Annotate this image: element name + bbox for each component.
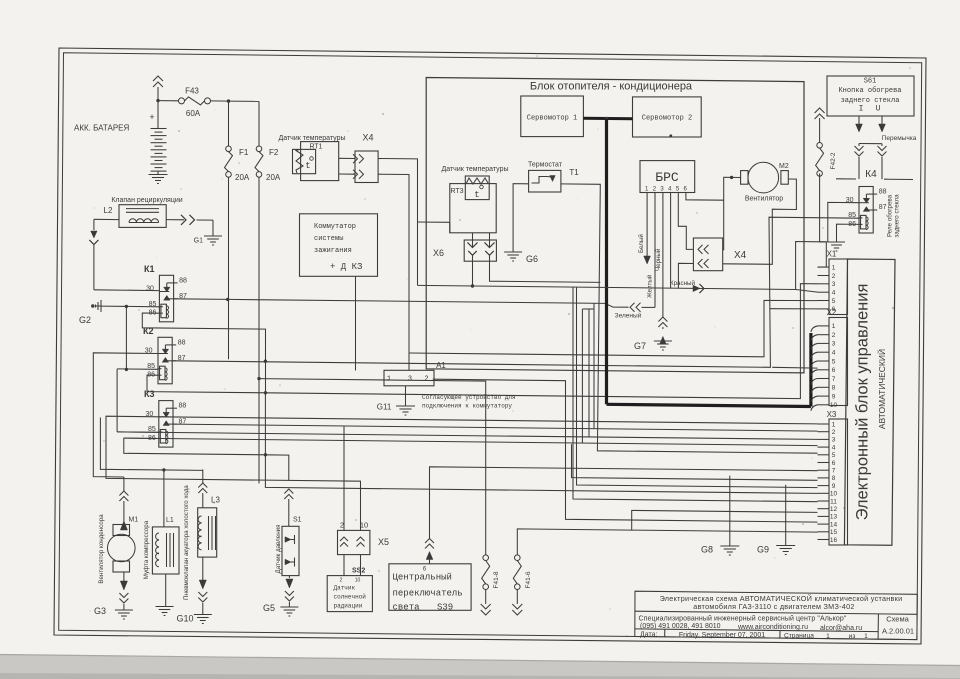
svg-text:1: 1 — [832, 421, 836, 428]
svg-text:G10: G10 — [176, 614, 193, 624]
thick link between servomotors — [583, 117, 632, 121]
svg-text:Блок отопителя - кондиционера: Блок отопителя - кондиционера — [530, 81, 693, 93]
svg-text:БРС: БРС — [655, 170, 679, 185]
wire tap L4 riser — [581, 309, 583, 443]
svg-text:www.airconditioning.ru: www.airconditioning.ru — [737, 624, 808, 631]
svg-text:13: 13 — [830, 514, 838, 521]
svg-text:Сервомотор 1: Сервомотор 1 — [527, 115, 577, 123]
svg-text:G11: G11 — [377, 403, 392, 412]
BRS block — [640, 161, 695, 193]
electronic control unit box — [844, 259, 895, 545]
svg-text:Белый: Белый — [638, 234, 645, 253]
ground G11 — [396, 405, 415, 407]
wire F41-6 feed from X3 pin12 line — [517, 510, 817, 555]
svg-text:9: 9 — [832, 393, 836, 400]
svg-text:X3: X3 — [827, 410, 837, 419]
fuse F41-6 — [515, 555, 521, 561]
svg-text:Датчик давления: Датчик давления — [275, 525, 282, 574]
ground G2 (chassis) — [96, 305, 102, 307]
ignition commutator box — [300, 214, 378, 276]
svg-text:F43: F43 — [185, 87, 199, 96]
node on K2-87 line — [264, 360, 267, 363]
svg-text:Х4: Х4 — [362, 133, 373, 143]
svg-text:Перемычка: Перемычка — [882, 135, 917, 142]
wire red spur to X1 pin4 — [796, 290, 818, 293]
svg-text:4: 4 — [832, 444, 836, 451]
svg-text:Согласующее устройство для: Согласующее устройство для — [422, 394, 516, 401]
svg-text:Вентилятор конденсора: Вентилятор конденсора — [98, 514, 105, 584]
wire F41-8 feed from F2 node — [259, 379, 486, 555]
svg-text:Коммутатор: Коммутатор — [314, 223, 356, 231]
fuse F41-8 — [483, 555, 489, 561]
rear window heater button S61 box — [827, 76, 914, 116]
svg-text:Термостат: Термостат — [528, 162, 563, 169]
solar sensor SS2 box — [327, 576, 372, 612]
ground G7 — [658, 317, 667, 322]
wire red long run — [418, 285, 796, 289]
svg-text:1: 1 — [826, 633, 830, 640]
wire X6 left pin down to red run — [472, 255, 474, 286]
wire L3 branch down — [202, 469, 204, 483]
fuse F1 — [228, 101, 230, 146]
svg-text:1: 1 — [832, 323, 836, 330]
wire G2 bus down to K2-85 — [125, 306, 127, 369]
wire BRS pin1 (white) — [646, 193, 648, 257]
wires X5 to SS2 — [343, 555, 345, 576]
svg-text:X1: X1 — [827, 250, 837, 259]
title block schema column divider — [877, 614, 879, 639]
svg-text:2: 2 — [832, 429, 836, 436]
svg-text:9: 9 — [832, 483, 836, 490]
svg-text:(095) 491 0028, 491 8010: (095) 491 0028, 491 8010 — [640, 623, 721, 630]
svg-text:Электронный блок управления: Электронный блок управления — [854, 284, 872, 521]
svg-text:6: 6 — [832, 367, 836, 374]
relay K3 — [159, 401, 173, 448]
svg-text:Красный: Красный — [670, 280, 695, 287]
svg-text:подключения к коммутатору: подключения к коммутатору — [422, 403, 512, 410]
wire K1-86 loop to 86-net — [142, 313, 265, 393]
svg-text:10: 10 — [360, 521, 368, 530]
svg-text:S39: S39 — [437, 603, 453, 613]
svg-text:2: 2 — [832, 273, 836, 280]
wire commutator to A1 — [355, 276, 357, 370]
ground under K4 — [828, 241, 845, 243]
svg-text:А1: А1 — [436, 361, 446, 370]
ground G6 — [504, 251, 522, 253]
page border inner frame — [59, 53, 922, 640]
svg-text:3: 3 — [408, 376, 412, 384]
wire T1 right down through relay lines to X3 pin5 — [561, 184, 818, 453]
svg-text:F41-6: F41-6 — [525, 571, 532, 588]
wire down to F2 — [258, 101, 260, 146]
wire RT3 tap — [418, 221, 450, 223]
node G2 bus top — [125, 305, 128, 308]
svg-text:Датчик температуры: Датчик температуры — [278, 135, 345, 142]
connector X5 — [338, 530, 370, 554]
thick bus bottom horizontal — [607, 404, 811, 406]
wire BRS pin4 (red) down to red run — [670, 193, 672, 289]
svg-text:20A: 20A — [235, 173, 250, 182]
wire F43 to F1/F2 — [211, 100, 229, 102]
svg-text:12: 12 — [830, 506, 838, 513]
thick bus vertical — [605, 119, 608, 405]
wire M2 left to X4-2 top — [723, 177, 732, 249]
connector green wire — [630, 303, 635, 312]
relay K4 rear-window heater — [859, 187, 873, 234]
wire tap L3 riser — [588, 309, 590, 437]
svg-text:88: 88 — [179, 277, 187, 284]
ground under battery — [157, 171, 159, 174]
svg-text:зажигания: зажигания — [314, 247, 352, 255]
wire green run to heater block — [228, 299, 629, 307]
wire A1 to ground G11 — [405, 386, 407, 406]
wire X3 pin8 feed from L4 tap — [572, 444, 818, 480]
motor M1 fan — [113, 525, 130, 536]
relay K1 — [159, 275, 173, 322]
svg-text:К1: К1 — [144, 264, 155, 274]
svg-text:7: 7 — [832, 468, 836, 475]
svg-text:G6: G6 — [526, 254, 538, 264]
wire K4-30 to red node — [820, 202, 859, 242]
svg-text:радиации: радиации — [334, 603, 363, 610]
svg-text:2: 2 — [340, 578, 343, 584]
svg-text:S1: S1 — [293, 517, 302, 524]
relay K2 — [158, 337, 172, 384]
title block row divider 1 — [635, 611, 917, 614]
svg-text:+: + — [149, 112, 154, 122]
ground G8 — [720, 545, 739, 547]
wire K2-85 down to K3-85 — [116, 369, 118, 432]
wire L1/L3 feed — [100, 418, 202, 471]
svg-text:3: 3 — [832, 281, 836, 288]
svg-text:М2: М2 — [779, 163, 789, 170]
wire T1 left to ground G6 — [513, 184, 529, 252]
svg-text:Желтый: Желтый — [647, 274, 654, 298]
svg-text:К4: К4 — [865, 169, 877, 180]
svg-text:Пневмоклапан акуатора холостог: Пневмоклапан акуатора холостого хода — [183, 485, 190, 600]
svg-text:8: 8 — [832, 475, 836, 482]
svg-text:88: 88 — [179, 403, 187, 410]
wire X4 out bottom (down) — [378, 174, 409, 370]
ground G10 — [194, 614, 212, 616]
svg-text:G7: G7 — [634, 341, 646, 351]
svg-text:10: 10 — [830, 402, 838, 409]
svg-text:16: 16 — [830, 537, 838, 544]
svg-text:3: 3 — [832, 437, 836, 444]
svg-text:из: из — [849, 633, 856, 640]
fuse F42-2 — [815, 108, 825, 113]
node thick bus top — [605, 117, 609, 121]
svg-text:T1: T1 — [569, 168, 579, 177]
svg-text:X5: X5 — [378, 537, 389, 547]
wire F2 down — [258, 177, 260, 378]
wire K2-30 down to M1 feed — [93, 353, 158, 477]
svg-text:10: 10 — [355, 578, 361, 584]
svg-text:света: света — [393, 603, 421, 613]
svg-text:6: 6 — [832, 460, 836, 467]
svg-text:АВТОМАТИЧЕСКИЙ: АВТОМАТИЧЕСКИЙ — [876, 349, 887, 429]
wire riser to X3 pin10 — [265, 455, 817, 494]
svg-text:К3: К3 — [144, 389, 155, 399]
svg-text:4: 4 — [832, 290, 836, 297]
wire S1 to ground G5 — [288, 576, 290, 578]
wire line B branch to X2 pin6 — [772, 366, 817, 369]
wire red run up to F42-2 — [796, 173, 820, 289]
svg-text:20A: 20A — [266, 173, 281, 182]
temperature sensor RT1 — [301, 142, 339, 181]
svg-text:2: 2 — [424, 376, 428, 384]
title block frame — [635, 591, 918, 639]
svg-text:5: 5 — [832, 298, 836, 305]
wire 86-net long run to X1 pin3 — [266, 284, 818, 399]
wire M2 right to X4-2 bottom — [723, 179, 797, 264]
svg-text:RT3: RT3 — [450, 188, 463, 195]
bus riser to X2 (thick) — [809, 333, 812, 407]
svg-text:7: 7 — [832, 376, 836, 383]
servo motor 2 box — [633, 97, 702, 137]
svg-text:88: 88 — [879, 189, 887, 196]
ground G5 — [280, 606, 298, 608]
svg-text:87: 87 — [879, 204, 887, 211]
jumper — [859, 143, 882, 145]
node F1 top — [227, 99, 230, 102]
svg-text:t: t — [474, 190, 479, 200]
wire K2-87 long run to X1 pin6 (line B) — [173, 217, 859, 367]
wire to fuse F43 — [158, 100, 179, 102]
svg-text:F42-2: F42-2 — [830, 152, 837, 169]
wire battery top — [157, 87, 159, 129]
svg-text:G2: G2 — [79, 315, 91, 325]
wire M1 feed down — [123, 477, 125, 491]
svg-text:F1: F1 — [239, 148, 249, 157]
light switch S39 box — [389, 564, 471, 611]
wire green continuation inside block — [582, 308, 594, 310]
wire F42-2 node to X1 pin1 — [818, 242, 827, 267]
wire L2 right to G1 — [166, 219, 184, 221]
wire BRS pin2 (yellow) down to green connector — [654, 193, 656, 308]
X2 fan-out hooks — [811, 326, 818, 332]
svg-text:G3: G3 — [94, 606, 106, 616]
wire X6 right pin to T1 vertical — [490, 255, 601, 282]
wire M1 to ground G3 — [123, 572, 125, 581]
wire BRS pin3 (black) to G7 — [662, 193, 664, 318]
wire K3-30 left leg to X5-2 — [106, 416, 361, 530]
svg-text:Центральный: Центральный — [393, 573, 452, 583]
svg-text:88: 88 — [178, 339, 186, 346]
svg-text:L2: L2 — [104, 206, 113, 215]
svg-text:G8: G8 — [701, 545, 713, 555]
line A run from RT1 branch to X1 pin5 — [409, 300, 818, 356]
svg-text:Черный: Черный — [655, 248, 662, 271]
svg-text:Кнопка обогрева: Кнопка обогрева — [838, 86, 901, 95]
wires RT3 to X6 — [472, 233, 474, 248]
wire K3-86 run to X3 pin4 (L4) — [124, 438, 818, 446]
svg-text:5: 5 — [832, 358, 836, 365]
svg-text:1: 1 — [864, 633, 868, 640]
wire K4-86 to ground — [837, 224, 860, 242]
svg-text:4: 4 — [832, 350, 836, 357]
svg-text:1: 1 — [832, 264, 836, 271]
svg-text:АКК. БАТАРЕЯ: АКК. БАТАРЕЯ — [74, 124, 130, 133]
fuse F43 — [179, 98, 185, 104]
wire K2-85 — [117, 368, 158, 370]
inductor L1 compressor clutch — [163, 470, 165, 527]
svg-text:I: I — [859, 105, 864, 114]
wire F41-6 corner branch to X3 pin15 — [632, 530, 818, 532]
wire L2 left down to K1-30 — [94, 218, 119, 220]
heater-conditioner block outline — [426, 78, 804, 373]
svg-text:15: 15 — [830, 529, 838, 536]
svg-text:G1: G1 — [194, 238, 203, 245]
wire BRS pin6 to M2 net — [686, 193, 724, 201]
node battery-F43 junction — [156, 99, 159, 102]
node K1-87/F1 — [226, 298, 229, 301]
svg-text:11: 11 — [830, 498, 837, 505]
svg-text:Схема: Схема — [886, 614, 909, 623]
svg-text:Сервомотор 2: Сервомотор 2 — [642, 115, 692, 123]
wire K3-30 run to X3 pin1 (L1) — [159, 417, 818, 424]
title row 3 dividers — [664, 629, 666, 637]
svg-text:Х6: Х6 — [433, 248, 444, 258]
temperature sensor RT3 — [450, 184, 496, 233]
svg-text:8: 8 — [832, 385, 836, 392]
S61 output pins — [858, 116, 860, 124]
wire K3-86 loop — [124, 438, 266, 455]
svg-text:U: U — [876, 105, 881, 114]
svg-text:L1: L1 — [166, 517, 174, 524]
wire ground drop G9 from pin9 line — [785, 485, 787, 546]
svg-text:85: 85 — [848, 212, 856, 219]
svg-text:Реле обогрева: Реле обогрева — [887, 194, 894, 237]
ground under L1 — [156, 606, 174, 608]
node L1 feed — [162, 468, 165, 471]
svg-text:Страница: Страница — [784, 633, 814, 640]
servo motor 1 box — [521, 96, 584, 137]
wire tap L2 riser — [593, 303, 595, 429]
wire K3-85 run to X3 pin3 (L3) — [117, 432, 817, 440]
wire A1 pin2 to X3 pin14 — [433, 379, 818, 522]
svg-text:Датчик: Датчик — [334, 585, 356, 592]
svg-text:заднего стекла: заднего стекла — [841, 97, 900, 105]
svg-text:Дата:: Дата: — [640, 631, 658, 638]
svg-text:Датчик температуры: Датчик температуры — [441, 166, 508, 173]
svg-text:G5: G5 — [263, 603, 275, 613]
fuse F1 lower lead to K-relays — [228, 177, 230, 359]
wire BRS pin5 to X4-2 — [678, 193, 693, 250]
svg-text:14: 14 — [830, 521, 838, 528]
bottom scan edge band — [0, 655, 960, 679]
svg-text:F2: F2 — [269, 148, 279, 157]
node servo2 bottom — [669, 134, 672, 137]
svg-text:X2: X2 — [827, 308, 837, 317]
svg-text:Специализированный инженерный: Специализированный инженерный сервисный … — [639, 615, 847, 623]
svg-text:t: t — [305, 161, 310, 171]
title block row divider 2 — [635, 629, 878, 632]
svg-text:+ Д КЗ: + Д КЗ — [330, 262, 362, 272]
svg-text:M1: M1 — [129, 517, 139, 524]
wire servo1 feedback to X3 pin9 — [577, 287, 818, 487]
svg-text:солнечной: солнечной — [334, 594, 367, 601]
svg-text:Зеленый: Зеленый — [615, 312, 642, 320]
svg-text:G9: G9 — [757, 545, 769, 555]
wire K1-87 to F1 node — [174, 298, 228, 301]
wire X4 out top (to red run) — [378, 159, 417, 286]
fuse F2 — [256, 146, 262, 152]
wire L3 to ground G10 — [202, 557, 204, 580]
svg-text:3: 3 — [832, 341, 836, 348]
fan motor M2 — [741, 171, 748, 185]
svg-text:X4: X4 — [734, 250, 747, 261]
wire M2 left rect — [732, 176, 741, 178]
wire S1 feed from 86-net — [265, 455, 288, 481]
svg-text:L3: L3 — [211, 496, 220, 505]
svg-text:5: 5 — [832, 452, 836, 459]
ground G3 — [115, 609, 133, 611]
svg-text:Вентилятор: Вентилятор — [745, 196, 783, 203]
svg-text:F41-8: F41-8 — [493, 571, 500, 588]
node M2 left — [730, 176, 733, 179]
wire green riser to BRS pin2 — [642, 306, 656, 308]
svg-text:системы: системы — [314, 235, 343, 243]
ground G1 — [204, 235, 222, 237]
wire K2-86 to 86-net — [147, 375, 266, 393]
svg-text:SS2: SS2 — [352, 568, 365, 575]
svg-text:Клапан рециркуляции: Клапан рециркуляции — [111, 197, 182, 204]
svg-text:А.2.00.01: А.2.00.01 — [882, 627, 914, 636]
svg-text:Friday, September 07, 2001: Friday, September 07, 2001 — [679, 632, 765, 639]
svg-text:30: 30 — [146, 286, 154, 293]
svg-text:10: 10 — [830, 491, 838, 498]
node F41 feed — [257, 377, 260, 380]
wire X1 pin6 branch — [770, 308, 818, 310]
wire K3-87 run to X3 pin2 (L2) — [173, 424, 818, 431]
battery GB1 — [151, 128, 167, 130]
svg-text:S61: S61 — [864, 78, 877, 86]
wire G2 to K1-85 — [101, 305, 159, 308]
wire 86-net riser from K3-86 — [264, 393, 266, 455]
wires RT1 to X4 — [339, 157, 355, 159]
svg-text:1: 1 — [387, 376, 391, 384]
red run arrow and chevron — [693, 285, 700, 291]
svg-text:60A: 60A — [186, 109, 201, 118]
node 86-net — [264, 391, 267, 394]
svg-text:переключатель: переключатель — [393, 589, 463, 599]
harness symbol above battery — [153, 76, 163, 81]
ground G9 — [776, 545, 795, 547]
wire X4-2 bottom to X3 pin6 — [678, 263, 693, 288]
svg-text:Муфта компрессора: Муфта компрессора — [143, 520, 150, 579]
svg-text:2: 2 — [832, 332, 836, 339]
svg-text:заднего стекла: заднего стекла — [894, 194, 901, 238]
page border outer frame — [54, 48, 926, 644]
wire ground drop G8 from pin8 line — [729, 476, 731, 546]
wire servo1 feedback to X3 pin11 — [573, 287, 818, 502]
svg-text:автомобиля ГАЗ-3110 с двигател: автомобиля ГАЗ-3110 с двигателем ЗМЗ-402 — [693, 602, 854, 611]
svg-text:2: 2 — [340, 521, 344, 530]
adapter A1 box — [384, 370, 434, 386]
wire S1 top connector — [284, 489, 293, 494]
svg-text:alcor@aha.ru: alcor@aha.ru — [820, 625, 862, 632]
scan noise specks — [347, 130, 349, 132]
connector M1 — [119, 491, 128, 496]
wire X5-2 riser from K3-87 line — [343, 426, 345, 530]
connector X4 (heater) — [693, 238, 722, 271]
wire L1 to ground — [165, 574, 167, 607]
